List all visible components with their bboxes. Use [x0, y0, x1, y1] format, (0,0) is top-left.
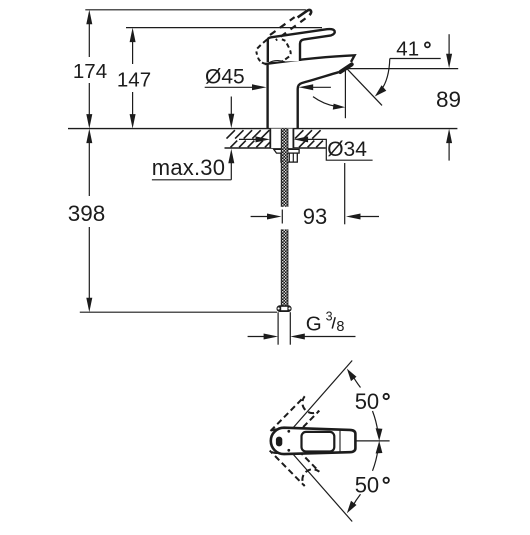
- handle side view fill: [268, 29, 335, 62]
- extension line top (174): [85, 9, 306, 11]
- mounting nut: [281, 153, 297, 162]
- svg-text:Ø34: Ø34: [327, 138, 367, 161]
- max.30 dimension: [152, 97, 234, 180]
- swivel arc under spout: [313, 97, 336, 107]
- svg-text:max.30: max.30: [152, 155, 225, 180]
- Ø34 arrows: [239, 136, 373, 160]
- label G3/8: [306, 310, 345, 336]
- dashed handle top view upper (+50): [270, 396, 320, 446]
- extension line (147): [126, 27, 322, 29]
- G3/8 tube: [278, 312, 290, 345]
- dashed raised lever (side view, 41 deg): [270, 10, 311, 40]
- dimension 89: [446, 34, 452, 160]
- svg-text:147: 147: [117, 69, 151, 92]
- hose fitting hex: [277, 305, 292, 312]
- svg-text:398: 398: [68, 201, 106, 226]
- 41 deg label leader: [375, 59, 441, 97]
- solid handle top view: [271, 428, 356, 454]
- aerator: [340, 64, 351, 72]
- faucet body fill: [265, 55, 355, 128]
- deck hatching: [227, 130, 323, 147]
- dimension 147: [130, 28, 136, 129]
- svg-text:93: 93: [303, 204, 327, 229]
- deck top line: [68, 128, 457, 130]
- washer below deck: [274, 149, 299, 153]
- 50 deg centerline upper: [282, 361, 353, 442]
- hose upper segment: [281, 129, 288, 207]
- svg-text:89: 89: [436, 87, 461, 112]
- 50 deg arc upper: [347, 369, 383, 441]
- svg-text:50: 50: [355, 473, 379, 498]
- hose lower segment: [281, 229, 288, 305]
- dashed handle cap (side view rotated): [256, 39, 290, 63]
- 41 deg rays from spout tip: [345, 69, 458, 119]
- handle seam arc: [268, 61, 285, 64]
- svg-text:Ø45: Ø45: [205, 66, 245, 89]
- svg-text:3: 3: [326, 310, 333, 324]
- dashed handle top view lower (-50): [270, 436, 320, 486]
- handle side view outline: [268, 29, 335, 62]
- extension line bottom (398 / G3-8): [80, 311, 277, 313]
- 50 deg centerline lower: [282, 441, 353, 522]
- svg-text:G: G: [306, 313, 322, 336]
- svg-text:41: 41: [396, 37, 419, 60]
- deck bottom line: [225, 147, 326, 149]
- G3/8 dimension arrows: [248, 334, 356, 340]
- dimension 93: [251, 163, 379, 224]
- faucet body outline: [265, 55, 355, 128]
- dimension 174: [86, 10, 92, 129]
- 50 deg arc lower: [347, 441, 383, 513]
- shank: [270, 129, 293, 148]
- dimension 398: [86, 129, 92, 313]
- svg-text:174: 174: [73, 60, 107, 83]
- horizontal centerline right of handle: [356, 440, 390, 442]
- svg-text:50: 50: [355, 389, 379, 414]
- svg-text:8: 8: [336, 319, 344, 335]
